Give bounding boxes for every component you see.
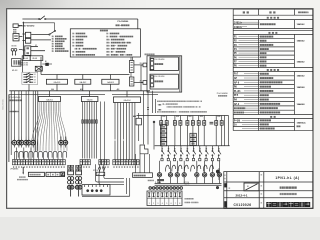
svg-text:AP: AP — [234, 77, 238, 80]
svg-text:1: 1 — [149, 203, 150, 205]
pin number grid — [147, 191, 182, 206]
svg-text:DB-8425 B6: DB-8425 B6 — [18, 65, 28, 67]
svg-text:PG-1344/66: PG-1344/66 — [217, 93, 229, 95]
svg-text:488: 488 — [133, 115, 136, 118]
svg-text:GA-802: GA-802 — [79, 81, 87, 84]
terminal unit box 1 — [39, 97, 61, 102]
relay coil 7 — [211, 161, 213, 173]
long verticals from mid to bottom — [143, 91, 145, 145]
option box 1 — [150, 57, 178, 71]
contact 7 — [199, 148, 200, 149]
relay coil 2 — [170, 161, 172, 173]
svg-text:B#: B# — [45, 61, 47, 63]
left edge label P-type — [9, 111, 18, 112]
main horizontal bus — [9, 90, 150, 92]
dark terminator on wire — [42, 63, 52, 65]
table section モニー — [267, 69, 279, 71]
fuse symbol 3 — [174, 118, 176, 121]
svg-text:1845/68: 1845/68 — [297, 86, 306, 89]
table row unit 9 — [234, 107, 245, 109]
option box 2 — [150, 74, 178, 89]
fuse symbol 4 — [179, 118, 181, 121]
fuse pair 1 — [13, 137, 15, 141]
option box 1 connector — [143, 63, 147, 67]
relay coil 3 — [176, 161, 178, 173]
main power switch — [39, 18, 40, 19]
legend right column — [107, 33, 120, 35]
svg-text:PG-1354/66: PG-1354/66 — [154, 59, 164, 61]
svg-text:GA-801: GA-801 — [54, 81, 62, 84]
terminator box dark — [133, 173, 153, 178]
relay coil 1 — [159, 161, 161, 173]
svg-text:ML-88: ML-88 — [12, 70, 17, 72]
circle chain row — [149, 187, 152, 190]
svg-text:1 2AB: 1 2AB — [155, 181, 161, 184]
svg-text:GA-803: GA-803 — [107, 81, 115, 84]
svg-text:2A: 2A — [234, 123, 237, 126]
svg-text:3B 3B: 3B 3B — [11, 46, 17, 48]
svg-text:7: 7 — [175, 203, 176, 205]
vertical connector box lower — [129, 77, 134, 86]
relay box GA-802 — [75, 79, 91, 84]
charger tall box — [25, 46, 31, 56]
wires from note area down to fuse row — [160, 116, 162, 118]
relay coil 4 — [183, 161, 185, 173]
contact 2 — [168, 148, 169, 149]
fuse symbol 1 — [160, 118, 162, 121]
title block row labels — [224, 175, 225, 176]
svg-text:AC100V 50/60Hz: AC100V 50/60Hz — [19, 25, 35, 28]
svg-text:GA-801: GA-801 — [46, 98, 54, 101]
wires fuse row to bus — [160, 128, 162, 146]
verticals to hanging arrows — [100, 102, 102, 165]
wire run under unit 3 — [114, 103, 116, 161]
svg-text:NOTE: NOTE — [185, 184, 191, 186]
relay coil 8 — [218, 161, 220, 173]
inline connector row under unit2 — [82, 120, 84, 123]
switch legend box — [70, 29, 140, 57]
title block name — [280, 186, 297, 188]
svg-text:G1: G1 — [34, 74, 36, 76]
fuse group labels — [162, 115, 165, 116]
svg-text:2012-4-1: 2012-4-1 — [235, 193, 247, 197]
black dot box — [61, 172, 65, 176]
terminal strip — [12, 160, 14, 165]
label 受信・発信装置 above legend — [116, 24, 130, 26]
fuse single right — [60, 137, 62, 141]
svg-text:G2: G2 — [34, 77, 36, 79]
svg-text:(FRAME): (FRAME) — [10, 167, 18, 170]
bus risers — [56, 75, 58, 80]
table section リモコン — [267, 17, 279, 19]
contact 9 — [212, 148, 213, 149]
horizontal collect above fuses — [137, 115, 229, 117]
hook arcs row — [14, 151, 18, 159]
hook arcs row right — [166, 165, 170, 171]
wires to option boxes — [140, 65, 142, 91]
svg-text:2: 2 — [153, 203, 154, 205]
svg-text:XE-08: XE-08 — [32, 58, 37, 60]
fuse symbol 6 — [192, 118, 194, 121]
terminal strip right part — [80, 160, 82, 165]
wire labels mid — [158, 104, 162, 105]
battery cell B2 — [14, 48, 17, 51]
wire run under unit 2 — [81, 102, 83, 159]
vertical connector box upper — [129, 61, 134, 73]
svg-text:3: 3 — [157, 203, 158, 205]
drops from relay boxes to bus — [56, 84, 58, 91]
svg-text:1848/62a: 1848/62a — [297, 121, 307, 124]
parts list table — [233, 9, 313, 130]
contact 3 — [174, 148, 175, 149]
wire switch to drop — [46, 18, 138, 20]
relay coil 5 — [196, 161, 198, 173]
table header text — [243, 11, 249, 13]
title block black mark row2 — [224, 183, 226, 187]
fuse symbol 2 — [166, 118, 168, 121]
table section 予備 — [270, 116, 275, 118]
title block company logo ニッタン株式会社 — [266, 202, 310, 207]
svg-text:1845/62: 1845/62 — [297, 23, 306, 26]
contact 10 — [218, 148, 219, 149]
relay box GA-803 — [102, 79, 119, 84]
note bullet lines — [157, 101, 202, 102]
changeover switch — [49, 34, 50, 35]
title block revision stamp — [244, 183, 259, 191]
PSU module box 1 — [25, 32, 30, 37]
left edge verticals — [10, 91, 12, 156]
wire ticks — [147, 107, 149, 109]
legend left column — [73, 33, 86, 35]
svg-text:5: 5 — [166, 203, 167, 205]
contact 8 — [206, 148, 207, 149]
svg-text:PF5: PF5 — [234, 95, 239, 97]
battery wires with arrows — [12, 51, 14, 54]
fuse symbol 7 — [198, 118, 200, 121]
wires to signal list — [31, 34, 49, 36]
wire drop to legend top — [137, 19, 139, 29]
inline contacts on run3 — [114, 140, 115, 141]
svg-text:G3: G3 — [34, 79, 36, 81]
dark junction circle — [216, 170, 219, 173]
svg-text:CB12002A: CB12002A — [2, 99, 5, 110]
svg-text:1844/68: 1844/68 — [297, 103, 306, 106]
AC supply box — [13, 24, 18, 28]
svg-text:G4: G4 — [34, 82, 36, 84]
svg-text:8: 8 — [179, 203, 180, 205]
wires right edge verticals — [224, 116, 226, 146]
svg-text:PG-1351/66: PG-1351/66 — [154, 76, 164, 78]
wires cluster to bus — [28, 84, 30, 90]
svg-text:1844/62: 1844/62 — [297, 60, 306, 63]
battery bar box — [12, 59, 22, 67]
bell chain at 70.6 — [68, 165, 71, 171]
verticals to terminator box — [135, 154, 137, 173]
module pair box — [22, 56, 30, 61]
bracket shape — [140, 145, 148, 154]
label オプション — [145, 53, 155, 55]
title block doc number black mark — [224, 201, 227, 207]
wires to option connectors — [134, 64, 143, 66]
table row unit 10 — [234, 112, 244, 114]
svg-text:C0120026: C0120026 — [234, 203, 252, 207]
svg-text:P-426: P-426 — [234, 119, 241, 122]
component near x138 — [136, 118, 141, 125]
svg-text:6: 6 — [171, 203, 172, 205]
double bus bottom right — [155, 183, 222, 185]
fuse symbol 5 — [186, 118, 188, 121]
ground labels — [19, 176, 26, 177]
equal sign between fuses — [210, 121, 214, 123]
curved wires to NC area — [96, 164, 125, 182]
note header name — [218, 95, 227, 97]
PSU module box 2 — [25, 38, 30, 43]
left area verticals to fuses — [13, 91, 15, 137]
svg-text:C4816+: C4816+ — [234, 21, 243, 24]
svg-text:F2: F2 — [35, 45, 37, 47]
svg-text:4: 4 — [162, 203, 163, 205]
ground arrow — [22, 167, 24, 173]
buzzer box with X — [35, 66, 42, 71]
label box 火災報知設備 — [28, 172, 44, 176]
wire into title block corner — [218, 168, 220, 180]
cabinet outline — [9, 95, 105, 102]
table section リニアボ — [268, 32, 277, 34]
svg-text:PG-1345/66: PG-1345/66 — [118, 20, 130, 23]
contact 6 — [193, 148, 194, 149]
contact 5 — [187, 148, 188, 149]
battery cell B1 — [11, 48, 14, 51]
fuse pair 2 — [21, 137, 23, 141]
main vertical bus left — [22, 22, 24, 60]
rectifier box — [13, 34, 19, 41]
stacked connector boxes left — [160, 125, 166, 129]
svg-text:1845/62: 1845/62 — [297, 74, 306, 77]
terminal unit box 3 — [114, 97, 141, 103]
option box 2 connector — [143, 81, 147, 85]
contact 4 — [180, 148, 181, 149]
fuse symbol 10 — [221, 118, 223, 121]
bus mid right — [155, 145, 230, 147]
connector block bottom — [82, 185, 110, 195]
svg-text:82Y16: 82Y16 — [93, 170, 98, 172]
hanging arrows — [99, 164, 101, 168]
stubs from legend to connector — [130, 57, 132, 61]
option enclosure — [147, 56, 182, 92]
power unit labels — [13, 29, 16, 30]
relay coil 6 — [204, 161, 206, 173]
wire run under unit 1 with fan — [31, 102, 40, 151]
svg-text:1845/62: 1845/62 — [297, 40, 306, 43]
caption mid2 — [185, 202, 199, 203]
svg-text:FA7: FA7 — [234, 73, 239, 76]
bell chain at 78.6 — [76, 165, 79, 171]
bottom caption — [185, 198, 194, 199]
label box 受信機 — [46, 172, 65, 176]
relay box GA-801 — [46, 79, 67, 84]
svg-text:XE-08: XE-08 — [23, 58, 28, 60]
wire from AC box to bus — [18, 25, 22, 27]
fuse symbol 8 — [203, 118, 205, 121]
svg-text:GA-80: GA-80 — [87, 98, 94, 101]
contact 1 — [162, 148, 163, 149]
svg-text:GA-804: GA-804 — [124, 99, 132, 102]
svg-text:AP-6: AP-6 — [234, 81, 240, 84]
switch cluster — [22, 72, 38, 84]
NC label — [148, 180, 154, 181]
cabinet bottom line — [82, 195, 130, 197]
terminal unit box 2 — [81, 97, 98, 102]
top wire — [22, 18, 38, 20]
terminal tick row right — [161, 158, 163, 160]
svg-text:1PN1-hL (A): 1PN1-hL (A) — [275, 176, 299, 180]
small box above connector — [96, 172, 105, 175]
wire to top — [22, 22, 54, 24]
svg-text:AP-2: AP-2 — [234, 103, 240, 106]
svg-text:C8: C8 — [97, 174, 99, 176]
fuse pair 3 — [28, 137, 30, 141]
riser from bus to unit1 — [49, 91, 51, 97]
stacked connector boxes right — [190, 133, 196, 137]
signal name list — [52, 36, 63, 38]
svg-text:C4916+: C4916+ — [234, 26, 243, 29]
title block — [224, 172, 313, 209]
svg-text:PL-R1: PL-R1 — [234, 91, 241, 93]
fuse symbol 9 — [215, 118, 217, 121]
